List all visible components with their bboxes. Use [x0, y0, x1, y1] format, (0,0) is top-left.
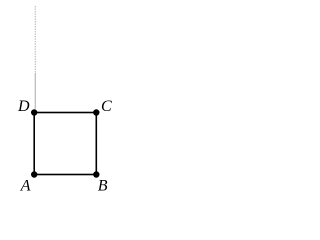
svg-text:A: A — [20, 178, 31, 195]
svg-text:D: D — [17, 98, 30, 115]
vertex dot A — [31, 171, 37, 177]
vertex dot D — [31, 109, 37, 115]
square ABCD — [34, 113, 96, 175]
dashed gray guide line — [34, 6, 36, 73]
solid gray segment — [34, 73, 36, 109]
svg-text:C: C — [101, 98, 112, 115]
svg-text:B: B — [98, 178, 108, 195]
vertex dot B — [93, 171, 99, 177]
vertex dot C — [93, 109, 99, 115]
